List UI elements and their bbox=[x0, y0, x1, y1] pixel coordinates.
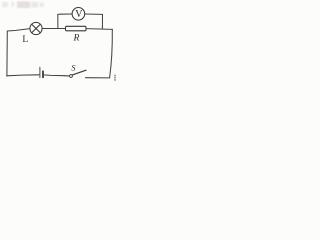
resistor R bbox=[66, 26, 87, 31]
voltmeter loop: left vertical wire bbox=[57, 15, 59, 29]
voltmeter U1 bbox=[72, 8, 85, 21]
voltmeter loop: top-left lead bbox=[58, 13, 72, 15]
faint print bleed-through smudges top-left bbox=[2, 2, 44, 9]
wire: battery to switch bbox=[44, 74, 64, 77]
wire: resistor to top-right corner bbox=[86, 28, 112, 31]
switch S bbox=[64, 70, 86, 77]
scan artifact tick at right edge bbox=[114, 75, 116, 82]
wire: top-left horizontal to lamp bbox=[7, 29, 30, 31]
voltmeter loop: right vertical wire bbox=[101, 14, 103, 29]
voltmeter loop: top-right lead bbox=[85, 13, 103, 15]
wire: bottom right (switch contact to bottom-right corner) bbox=[86, 77, 110, 79]
wire: lamp to resistor bbox=[42, 28, 65, 30]
lamp L bbox=[30, 22, 42, 34]
svg-text:S: S bbox=[71, 63, 75, 72]
wire: bottom-left corner to battery bbox=[7, 75, 39, 76]
svg-text:V: V bbox=[75, 9, 83, 20]
svg-text:L: L bbox=[22, 35, 28, 45]
svg-text:R: R bbox=[73, 33, 80, 44]
wire: right vertical bbox=[110, 29, 113, 77]
battery cell bbox=[40, 67, 43, 77]
wire: left vertical (top-left corner to bottom-left corner) bbox=[6, 31, 8, 75]
